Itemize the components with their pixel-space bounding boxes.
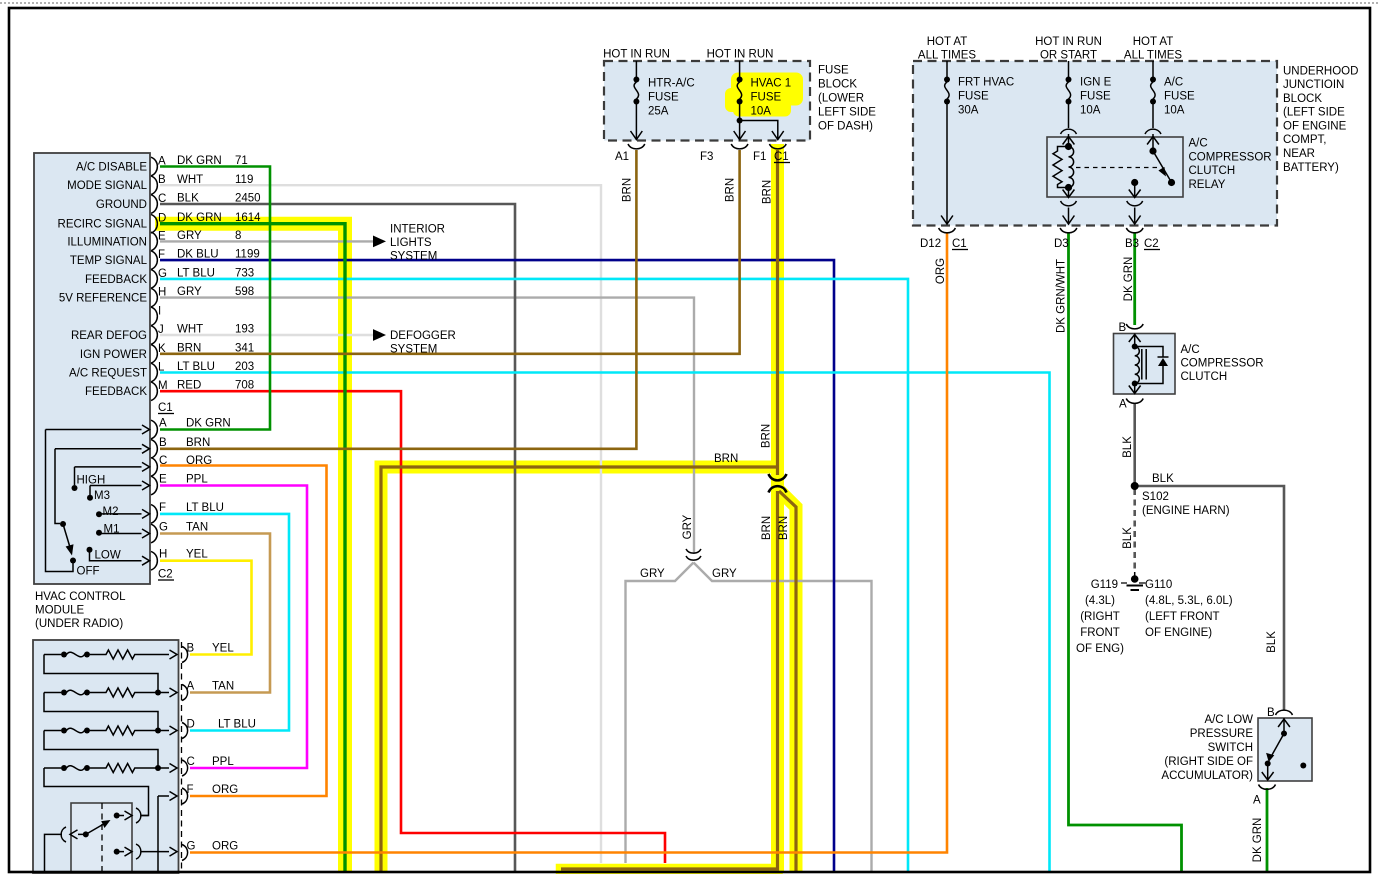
- svg-text:C2: C2: [1144, 238, 1159, 250]
- inline connector on highlighted BRN wire: [769, 474, 787, 493]
- pin arc F1 below fuse block: [769, 144, 786, 149]
- relay B3 wire to junction bottom: [1134, 208, 1136, 223]
- svg-text:D3: D3: [1054, 238, 1069, 250]
- wire DK GRN pressure switch A to bottom: [1266, 788, 1269, 871]
- wire BLK S102 branch to pressure switch B: [1135, 486, 1284, 710]
- svg-text:K: K: [158, 343, 166, 355]
- svg-text:G110: G110: [1145, 579, 1172, 591]
- underhood junction block (dashed box): [913, 61, 1277, 226]
- relay coil: [1065, 143, 1074, 191]
- svg-text:ORG: ORG: [212, 841, 238, 853]
- svg-text:WHT: WHT: [177, 174, 203, 186]
- relay switch pin entering arrow: [1152, 134, 1154, 149]
- svg-text:(ENGINE HARN): (ENGINE HARN): [1142, 505, 1230, 517]
- svg-text:71: 71: [235, 155, 248, 167]
- svg-text:BLK: BLK: [1266, 631, 1278, 653]
- fuse block (dashed box): [604, 61, 810, 141]
- svg-text:(UNDER RADIO): (UNDER RADIO): [35, 618, 123, 630]
- svg-text:A/C: A/C: [1189, 138, 1208, 150]
- HVAC control module box: [34, 153, 150, 584]
- svg-text:I: I: [158, 305, 161, 317]
- svg-text:(4.3L): (4.3L): [1085, 595, 1115, 607]
- svg-text:COMPRESSOR: COMPRESSOR: [1181, 358, 1264, 370]
- svg-text:BLK: BLK: [1152, 473, 1174, 485]
- blower connector wire colors: [212, 643, 256, 853]
- svg-text:193: 193: [235, 324, 254, 336]
- svg-text:B: B: [159, 437, 167, 449]
- svg-text:BRN: BRN: [761, 424, 773, 448]
- pin arc B3 below junction block: [1126, 228, 1143, 233]
- relay D3 wire to junction bottom: [1068, 208, 1070, 223]
- svg-text:C1: C1: [158, 402, 173, 414]
- svg-text:M2: M2: [103, 506, 119, 518]
- svg-text:708: 708: [235, 380, 254, 392]
- svg-text:SYSTEM: SYSTEM: [390, 344, 437, 356]
- svg-text:D: D: [158, 213, 166, 225]
- svg-text:(LEFT SIDE: (LEFT SIDE: [1283, 107, 1345, 119]
- svg-text:2450: 2450: [235, 193, 261, 205]
- svg-text:OF ENGINE: OF ENGINE: [1283, 120, 1347, 132]
- svg-text:RED: RED: [177, 380, 201, 392]
- inner mode switch box: [71, 803, 132, 872]
- svg-text:ILLUMINATION: ILLUMINATION: [67, 236, 147, 248]
- svg-text:IGN POWER: IGN POWER: [80, 349, 147, 361]
- svg-text:MODE SIGNAL: MODE SIGNAL: [67, 180, 147, 192]
- svg-text:BRN: BRN: [714, 453, 738, 465]
- svg-text:LT BLU: LT BLU: [177, 361, 215, 373]
- A/C compressor clutch relay box: [1047, 137, 1183, 197]
- wire LT BLU C2-F to blower resistor D: [160, 514, 289, 731]
- wire BRN highlighted right branch: [779, 491, 796, 873]
- svg-text:1614: 1614: [235, 212, 261, 224]
- svg-text:F3: F3: [700, 151, 713, 163]
- svg-text:DK BLU: DK BLU: [177, 249, 219, 261]
- svg-text:MODULE: MODULE: [35, 605, 85, 617]
- svg-text:598: 598: [235, 286, 254, 298]
- connector arc above relay switch pin: [1145, 129, 1161, 134]
- wire DK GRN/WHT junction D3 down and right: [1069, 232, 1182, 871]
- highlight band on BRN horizontal + left vertical wire: [381, 467, 778, 866]
- contact dots: [70, 558, 76, 564]
- svg-text:COMPRESSOR: COMPRESSOR: [1189, 151, 1272, 163]
- fuse A/C 10A: [1150, 61, 1156, 128]
- svg-text:LOW: LOW: [95, 550, 121, 562]
- wire RED 708 C1-M: [160, 391, 665, 863]
- svg-text:REAR DEFOG: REAR DEFOG: [71, 330, 147, 342]
- fuse HVAC 1 10A: [734, 61, 784, 140]
- fuse IGN E 10A: [1066, 61, 1072, 128]
- relay coil output arrow to D3: [1068, 188, 1070, 197]
- pin arc A1 below fuse block: [628, 144, 645, 149]
- relay B3 contact dot and arrow: [1131, 179, 1138, 186]
- pressure switch pin A arc: [1259, 785, 1276, 790]
- svg-text:J: J: [158, 324, 164, 336]
- svg-text:BRN: BRN: [186, 437, 210, 449]
- svg-text:119: 119: [235, 174, 253, 186]
- wire to pin C from HIGH: [75, 462, 150, 471]
- svg-text:C2: C2: [158, 569, 173, 581]
- svg-text:HVAC 1: HVAC 1: [751, 78, 792, 90]
- wire BLK dashed S102 to ground: [1133, 489, 1136, 572]
- svg-text:FRT HVAC: FRT HVAC: [958, 77, 1014, 89]
- svg-text:341: 341: [235, 342, 254, 354]
- svg-text:A: A: [159, 418, 167, 430]
- wire DK BLU 1199 C1-F: [160, 260, 834, 871]
- svg-text:E: E: [158, 230, 166, 242]
- svg-text:UNDERHOOD: UNDERHOOD: [1283, 65, 1358, 77]
- svg-text:A: A: [1253, 795, 1261, 807]
- wire YEL C2-H to blower resistor B: [160, 561, 252, 655]
- mode switch arm: [86, 822, 108, 835]
- svg-text:SWITCH: SWITCH: [1208, 742, 1253, 754]
- svg-text:IGN E: IGN E: [1080, 77, 1112, 89]
- svg-text:GRY: GRY: [682, 514, 694, 539]
- svg-text:LEFT SIDE: LEFT SIDE: [818, 107, 876, 119]
- row4 feed to mode switch: [44, 768, 149, 816]
- svg-text:FUSE: FUSE: [818, 65, 849, 77]
- svg-text:LIGHTS: LIGHTS: [390, 237, 432, 249]
- svg-text:M3: M3: [94, 490, 110, 502]
- svg-text:BRN: BRN: [177, 342, 201, 354]
- svg-text:F: F: [187, 784, 194, 796]
- svg-text:COMPT,: COMPT,: [1283, 134, 1326, 146]
- svg-text:FRONT: FRONT: [1080, 627, 1120, 639]
- svg-text:FUSE: FUSE: [1164, 91, 1195, 103]
- fuse FRT HVAC 30A: [941, 61, 953, 224]
- svg-text:10A: 10A: [1080, 105, 1101, 117]
- svg-text:C: C: [187, 756, 195, 768]
- wire to pin B: [55, 444, 150, 453]
- svg-text:LT BLU: LT BLU: [177, 267, 215, 279]
- resistor row 2: [44, 692, 61, 694]
- wire LT BLU 733 C1-G: [160, 279, 908, 871]
- svg-text:A/C REQUEST: A/C REQUEST: [69, 368, 147, 380]
- wire ORG blower resistor G to junction D12: [190, 232, 947, 853]
- connector arc below relay D3 pin: [1061, 201, 1077, 206]
- svg-text:HOT AT: HOT AT: [1133, 36, 1173, 48]
- svg-text:GRY: GRY: [712, 568, 737, 580]
- svg-text:A/C DISABLE: A/C DISABLE: [76, 162, 147, 174]
- wire GRY 8 C1-E to interior lights arrow: [160, 240, 373, 242]
- defogger system arrow: [373, 329, 386, 341]
- relay resistor: [1053, 147, 1069, 188]
- svg-text:DK GRN: DK GRN: [186, 418, 231, 430]
- connector arc above relay coil pin: [1061, 129, 1077, 134]
- svg-text:G119: G119: [1091, 579, 1118, 591]
- svg-text:BRN: BRN: [725, 178, 737, 202]
- HVAC module internal switch wiring: [46, 425, 150, 572]
- svg-text:OF ENGINE): OF ENGINE): [1145, 627, 1212, 639]
- mode switch common: [83, 831, 89, 837]
- svg-text:SYSTEM: SYSTEM: [390, 251, 437, 263]
- svg-text:DK GRN: DK GRN: [1252, 818, 1264, 863]
- resistor row 3: [44, 730, 61, 732]
- svg-text:B: B: [1267, 707, 1275, 719]
- svg-text:RELAY: RELAY: [1189, 179, 1226, 191]
- svg-text:M1: M1: [104, 524, 120, 536]
- A/C low pressure switch box: [1258, 718, 1312, 781]
- svg-text:C: C: [159, 455, 167, 467]
- svg-text:BLK: BLK: [1122, 527, 1134, 549]
- C2 connector scallops: [151, 420, 157, 570]
- svg-text:733: 733: [235, 267, 254, 279]
- svg-text:A/C: A/C: [1181, 344, 1200, 356]
- svg-text:BLK: BLK: [177, 193, 199, 205]
- svg-text:DK GRN: DK GRN: [177, 155, 222, 167]
- interior lights system arrow: [373, 236, 386, 248]
- blower resistor module box: [33, 640, 179, 873]
- svg-text:A1: A1: [615, 151, 629, 163]
- svg-text:HIGH: HIGH: [77, 475, 106, 487]
- wire PPL C2-E to blower resistor C: [160, 486, 307, 769]
- svg-text:F1: F1: [753, 151, 766, 163]
- relay internal dashed link: [1076, 167, 1158, 169]
- wire BRN 341 C1-K to fuse F3: [160, 150, 740, 354]
- series links between rows: [44, 655, 158, 693]
- GRY splice connector: [686, 549, 701, 560]
- top dotted artifact line: [0, 2, 1380, 4]
- wire GRY 598 C1-H down to splice: [160, 298, 694, 554]
- svg-text:BRN: BRN: [761, 516, 773, 540]
- svg-text:FUSE: FUSE: [958, 91, 989, 103]
- C1 wire color names: [177, 155, 222, 392]
- svg-text:(LEFT FRONT: (LEFT FRONT: [1145, 611, 1220, 623]
- svg-text:ALL TIMES: ALL TIMES: [1124, 50, 1182, 62]
- svg-text:G: G: [159, 522, 168, 534]
- fuse HTR-A/C 25A: [631, 61, 643, 140]
- svg-text:D: D: [187, 719, 195, 731]
- wire BLK clutch A to S102: [1133, 404, 1136, 486]
- switch to pin F link: [141, 815, 149, 817]
- connector arc below relay B3 pin: [1127, 201, 1143, 206]
- svg-text:RECIRC SIGNAL: RECIRC SIGNAL: [58, 219, 148, 231]
- svg-text:30A: 30A: [958, 105, 979, 117]
- svg-text:B: B: [158, 174, 166, 186]
- pin F feed vertical: [158, 792, 177, 873]
- svg-text:YEL: YEL: [212, 643, 234, 655]
- svg-text:ORG: ORG: [186, 455, 212, 467]
- svg-text:HVAC CONTROL: HVAC CONTROL: [35, 591, 126, 603]
- svg-text:(RIGHT SIDE OF: (RIGHT SIDE OF: [1164, 756, 1253, 768]
- wire to pin A: [46, 425, 150, 434]
- S102 splice dot: [1131, 482, 1139, 490]
- svg-text:L: L: [158, 362, 165, 374]
- C1 connector scallops: [151, 157, 157, 400]
- module left pin functions: [58, 162, 148, 399]
- wire WHT 193 C1-J to defogger arrow: [160, 334, 373, 336]
- svg-text:5V REFERENCE: 5V REFERENCE: [59, 293, 148, 305]
- svg-text:GRY: GRY: [177, 230, 202, 242]
- svg-text:HTR-A/C: HTR-A/C: [648, 78, 695, 90]
- svg-text:CLUTCH: CLUTCH: [1189, 165, 1236, 177]
- wire GRY splice left branch: [626, 563, 694, 864]
- svg-text:GRY: GRY: [177, 286, 202, 298]
- svg-text:H: H: [159, 549, 167, 561]
- svg-text:BRN: BRN: [762, 180, 774, 204]
- highlight band on right BRN branch wire: [779, 490, 796, 866]
- svg-text:GROUND: GROUND: [96, 199, 147, 211]
- pressure switch pin B arc: [1276, 710, 1293, 715]
- selector arm: [63, 524, 71, 549]
- svg-text:ORG: ORG: [935, 258, 947, 284]
- wire BRN highlighted below connector to bottom elbow: [561, 491, 778, 869]
- blower resistor connector dashed line: [181, 642, 183, 872]
- svg-text:8: 8: [235, 230, 241, 242]
- resistor row 4: [44, 767, 61, 769]
- clutch pin B arc: [1126, 324, 1143, 329]
- clutch pin A arc: [1126, 399, 1143, 404]
- svg-text:TEMP SIGNAL: TEMP SIGNAL: [70, 255, 148, 267]
- svg-text:B: B: [1119, 322, 1127, 334]
- svg-text:(LOWER: (LOWER: [818, 93, 864, 105]
- pressure switch internals: [1262, 718, 1307, 780]
- svg-text:25A: 25A: [648, 106, 669, 118]
- svg-text:203: 203: [235, 361, 254, 373]
- svg-text:C: C: [158, 193, 166, 205]
- svg-text:10A: 10A: [1164, 105, 1185, 117]
- svg-text:LT BLU: LT BLU: [186, 502, 224, 514]
- resistor row 1: [44, 654, 61, 656]
- svg-text:BLOCK: BLOCK: [1283, 93, 1322, 105]
- wire BRN highlighted horizontal + left vertical: [381, 467, 778, 873]
- svg-text:A/C LOW: A/C LOW: [1204, 714, 1253, 726]
- relay coil pin entering arrow: [1068, 134, 1070, 145]
- C2 pin letters: [159, 418, 168, 561]
- svg-text:BRN: BRN: [622, 178, 634, 202]
- wire to pin E from M3: [90, 481, 150, 490]
- svg-text:PPL: PPL: [212, 756, 234, 768]
- wire GRY splice right branch: [694, 563, 872, 872]
- highlight blob over HVAC 1 fuse label: [731, 73, 803, 106]
- svg-text:PRESSURE: PRESSURE: [1190, 728, 1254, 740]
- wire DK GRN 1614 RECIRC highlighted: [160, 224, 345, 873]
- svg-text:M: M: [158, 380, 168, 392]
- svg-text:BLK: BLK: [1122, 436, 1134, 458]
- svg-text:E: E: [159, 474, 167, 486]
- svg-text:TAN: TAN: [186, 522, 208, 534]
- svg-text:D12: D12: [920, 238, 941, 250]
- svg-text:JUNCTIOIN: JUNCTIOIN: [1283, 79, 1344, 91]
- svg-text:BRN: BRN: [778, 516, 790, 540]
- svg-text:YEL: YEL: [186, 549, 208, 561]
- svg-text:C1: C1: [774, 151, 789, 163]
- svg-text:B3: B3: [1125, 238, 1139, 250]
- svg-text:FUSE: FUSE: [648, 92, 679, 104]
- svg-text:OF ENG): OF ENG): [1076, 643, 1124, 655]
- mode switch top contact: [114, 813, 120, 819]
- svg-text:F: F: [159, 502, 166, 514]
- svg-text:HOT IN RUN: HOT IN RUN: [707, 49, 774, 61]
- wire ORG C2-C to blower resistor F: [160, 466, 327, 797]
- wire DK GRN junction B3 to clutch B: [1133, 232, 1136, 325]
- svg-text:C1: C1: [952, 238, 967, 250]
- svg-text:DK GRN: DK GRN: [1123, 257, 1135, 302]
- svg-text:TAN: TAN: [212, 681, 234, 693]
- highlight band on fuse F1 BRN vertical wire: [771, 151, 784, 867]
- wire BLK 2450 C1-C to bottom: [160, 204, 515, 871]
- pin arc D3 below junction block: [1060, 228, 1077, 233]
- wire to pin G from M1: [99, 529, 150, 538]
- pin arc D12 below junction block: [939, 228, 956, 233]
- C2 wire colors: [186, 418, 231, 561]
- svg-text:G: G: [158, 268, 167, 280]
- svg-text:F: F: [158, 249, 165, 261]
- svg-text:FEEDBACK: FEEDBACK: [85, 274, 147, 286]
- wire to pin F from M2: [99, 509, 150, 518]
- highlight band on bottom BRN horizontal wire: [561, 864, 778, 874]
- svg-text:HOT IN RUN: HOT IN RUN: [1035, 36, 1102, 48]
- wire LT BLU 203 C1-L: [160, 373, 1050, 872]
- svg-text:B: B: [187, 643, 195, 655]
- svg-text:A: A: [1119, 399, 1127, 411]
- svg-text:HOT AT: HOT AT: [927, 36, 967, 48]
- svg-text:G: G: [187, 841, 196, 853]
- wire WHT 119 C1-B to bottom: [160, 185, 601, 863]
- svg-text:OF DASH): OF DASH): [818, 121, 873, 133]
- svg-text:ACCUMULATOR): ACCUMULATOR): [1161, 770, 1253, 782]
- wire BRN C2-B to fuse A1: [160, 150, 636, 449]
- svg-text:(RIGHT: (RIGHT: [1080, 611, 1120, 623]
- svg-text:A: A: [187, 681, 195, 693]
- pressure switch name: [1161, 714, 1253, 782]
- svg-text:OR START: OR START: [1040, 50, 1097, 62]
- svg-text:HOT IN RUN: HOT IN RUN: [603, 49, 670, 61]
- svg-text:GRY: GRY: [640, 568, 665, 580]
- svg-text:1199: 1199: [235, 249, 260, 261]
- svg-text:PPL: PPL: [186, 474, 208, 486]
- A/C compressor clutch box: [1114, 334, 1176, 395]
- wire DK GRN 71 C1-A loop to C2-A: [160, 167, 270, 430]
- blower connector pin letters: [187, 643, 196, 853]
- clutch internals: [1129, 334, 1169, 394]
- svg-text:H: H: [158, 287, 166, 299]
- highlight band on RECIRC DK GRN wire: [162, 224, 345, 866]
- svg-text:CLUTCH: CLUTCH: [1181, 371, 1228, 383]
- svg-text:BLOCK: BLOCK: [818, 79, 857, 91]
- relay switch arm: [1149, 147, 1175, 186]
- svg-text:A: A: [158, 156, 166, 168]
- svg-text:WHT: WHT: [177, 324, 203, 336]
- svg-text:FUSE: FUSE: [751, 92, 782, 104]
- svg-text:DK GRN: DK GRN: [177, 212, 222, 224]
- C1 pin letters: [158, 156, 168, 393]
- wire to pin H from LOW: [90, 552, 150, 565]
- svg-text:ALL TIMES: ALL TIMES: [918, 50, 976, 62]
- svg-text:BATTERY): BATTERY): [1283, 162, 1339, 174]
- pin arc F3 below fuse block: [731, 144, 748, 149]
- svg-text:(4.8L, 5.3L, 6.0L): (4.8L, 5.3L, 6.0L): [1145, 595, 1233, 607]
- wire TAN C2-G to blower resistor A: [160, 534, 270, 693]
- blower resistor connector pin arcs: [182, 647, 188, 861]
- svg-text:DK GRN/WHT: DK GRN/WHT: [1056, 259, 1068, 333]
- ground symbol G119/G110: [1121, 572, 1146, 590]
- svg-text:INTERIOR: INTERIOR: [390, 224, 445, 236]
- svg-text:DEFOGGER: DEFOGGER: [390, 330, 456, 342]
- svg-text:FUSE: FUSE: [1080, 91, 1111, 103]
- mode switch lower contact: [114, 849, 120, 855]
- svg-text:NEAR: NEAR: [1283, 148, 1315, 160]
- svg-text:10A: 10A: [751, 106, 772, 118]
- svg-text:A/C: A/C: [1164, 77, 1183, 89]
- C1 circuit numbers: [235, 155, 261, 392]
- svg-text:LT BLU: LT BLU: [218, 719, 256, 731]
- wire BRN F1 highlighted vertical: [776, 150, 779, 475]
- svg-text:FEEDBACK: FEEDBACK: [85, 386, 147, 398]
- blower resistor internals: [44, 650, 177, 872]
- svg-text:OFF: OFF: [77, 566, 100, 578]
- svg-text:ORG: ORG: [212, 784, 238, 796]
- svg-text:S102: S102: [1142, 491, 1169, 503]
